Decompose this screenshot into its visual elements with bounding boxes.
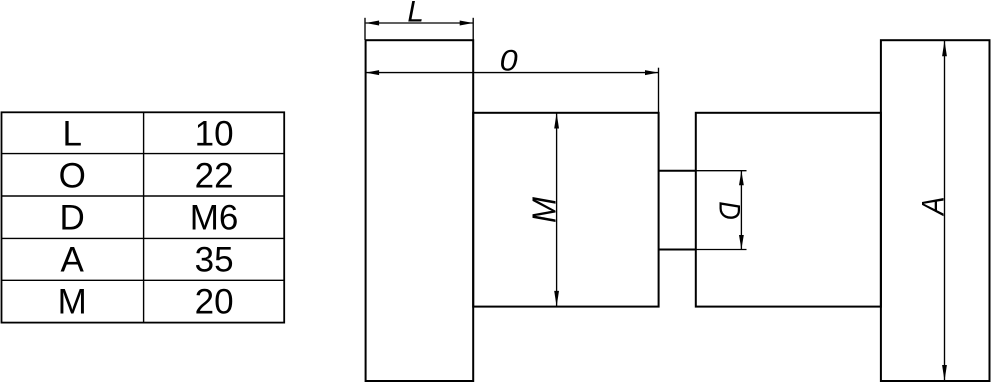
dimension A arrow bottom	[942, 365, 947, 381]
table row O = 22	[59, 156, 234, 195]
dimension O extension line right	[658, 68, 660, 113]
dimension L extension line right	[472, 18, 474, 40]
table row A = 35	[61, 241, 234, 280]
table row D = M6	[60, 198, 239, 237]
svg-text:M: M	[58, 283, 87, 322]
svg-text:M: M	[526, 197, 563, 223]
svg-text:D: D	[60, 198, 85, 237]
svg-text:A: A	[61, 241, 85, 280]
table row L = 10	[62, 114, 233, 153]
dimension D extension line bottom	[696, 249, 747, 251]
svg-text:L: L	[62, 114, 81, 153]
dimension O line	[366, 72, 659, 74]
dimension O label	[500, 44, 518, 77]
svg-text:10: 10	[195, 114, 234, 153]
dimension L line	[366, 22, 474, 24]
dimension L arrow right	[460, 21, 474, 26]
table row divider 3	[2, 237, 285, 239]
table row divider 1	[2, 153, 285, 155]
dimension D arrow top	[739, 171, 744, 186]
dimension O arrow right	[645, 70, 659, 75]
dimension L arrow left	[366, 21, 380, 26]
svg-text:35: 35	[195, 241, 234, 280]
dimension L extension line left	[364, 18, 366, 40]
dimension A line	[944, 40, 946, 381]
dimension L label	[407, 0, 423, 28]
dimension D arrow bottom	[739, 235, 744, 250]
svg-text:20: 20	[195, 283, 234, 322]
right body rectangle	[696, 113, 881, 307]
dimension M line	[556, 113, 558, 307]
dimension D extension line top	[696, 170, 747, 172]
left flange rectangle (knob cap, width L)	[366, 40, 474, 381]
threaded stem bottom line	[659, 249, 696, 251]
svg-text:0: 0	[500, 44, 518, 77]
table row divider 2	[2, 195, 285, 197]
middle body rectangle (height M)	[473, 113, 658, 307]
threaded stem top line (diameter D)	[659, 170, 696, 172]
dimension M arrow top	[554, 113, 559, 129]
right flange rectangle (height A)	[881, 40, 990, 381]
dimension M label (rotated)	[526, 197, 563, 223]
dimension M arrow bottom	[554, 291, 559, 307]
svg-text:D: D	[713, 201, 746, 219]
svg-text:M6: M6	[190, 198, 239, 237]
dimension A arrow top	[942, 40, 947, 56]
svg-text:A: A	[916, 197, 951, 217]
svg-text:O: O	[59, 156, 86, 195]
table column divider	[143, 112, 145, 322]
dimension D line	[740, 171, 742, 250]
dimension D label (rotated)	[713, 201, 746, 219]
dimension A label (rotated)	[916, 197, 951, 217]
svg-text:22: 22	[195, 156, 234, 195]
svg-text:L: L	[407, 0, 423, 28]
table row M = 20	[58, 283, 234, 322]
table row divider 4	[2, 279, 285, 281]
parameter table outer frame	[2, 112, 285, 322]
dimension O arrow left	[366, 70, 380, 75]
